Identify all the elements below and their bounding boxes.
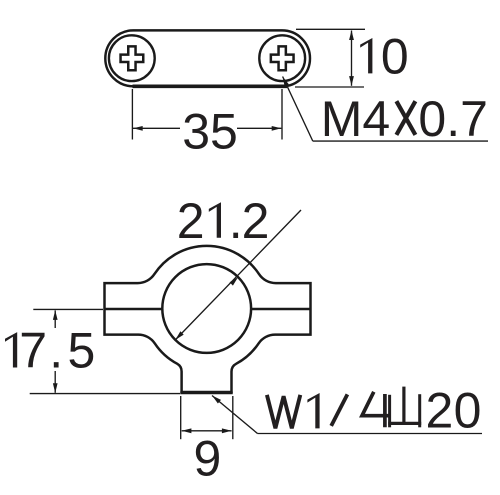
side view: clamp ring outline	[105, 246, 311, 392]
screw S2 phillips cross	[271, 46, 294, 70]
screw S1 phillips cross	[121, 46, 144, 70]
svg-text:.: .	[49, 323, 63, 379]
screw S2 (right) head circle	[259, 35, 305, 81]
dim line 10 vertical with arrows	[351, 31, 353, 86]
extension line bottom for dim 17.5	[30, 393, 180, 395]
svg-text:M4: M4	[321, 91, 390, 147]
diameter dim line 21.2	[175, 210, 301, 340]
dim line 17.5 bottom arrow	[54, 371, 56, 393]
seam line left half	[105, 308, 163, 310]
extension line left for dim 9	[180, 396, 182, 439]
dim text 17.5	[5, 332, 17, 367]
leader arrow for M4X0.7	[283, 77, 289, 87]
extension line right for dim 9	[232, 396, 234, 439]
svg-text:0.7: 0.7	[418, 91, 488, 147]
svg-text:2: 2	[177, 193, 205, 249]
svg-text:0: 0	[381, 28, 409, 84]
screw S1 (left) head circle	[109, 35, 155, 81]
svg-text:35: 35	[182, 104, 238, 160]
dim text 10	[360, 38, 372, 73]
svg-text:9: 9	[194, 430, 222, 486]
extension line top for dim 10	[296, 28, 365, 30]
dim line 35 left segment with arrow	[133, 127, 180, 129]
extension line top for dim 17.5	[33, 308, 103, 310]
extension line bottom for dim 10	[295, 86, 364, 88]
kanji yama (thread) glyph	[388, 387, 421, 428]
svg-text:5: 5	[68, 323, 96, 379]
extension line left for dim 35	[131, 89, 133, 140]
extension line right for dim 35	[281, 89, 283, 140]
thick bottom edge of plate	[133, 84, 288, 88]
pipe hole circle	[162, 264, 251, 353]
label W1/4	[267, 395, 300, 428]
svg-text:2: 2	[426, 383, 454, 439]
svg-text:7: 7	[19, 323, 47, 379]
seam line right half	[251, 308, 311, 310]
dim line 9 with arrows	[182, 430, 232, 432]
leader arrow for W1/4 thread	[212, 396, 221, 404]
bottom tab bottom edge thick	[180, 391, 232, 394]
dim line 35 right segment with arrow	[237, 127, 281, 129]
svg-text:0: 0	[454, 383, 482, 439]
svg-text:2: 2	[242, 193, 270, 249]
dim line 17.5 top arrow	[54, 310, 56, 328]
top view: mounting plate (stadium outline)	[105, 30, 310, 86]
